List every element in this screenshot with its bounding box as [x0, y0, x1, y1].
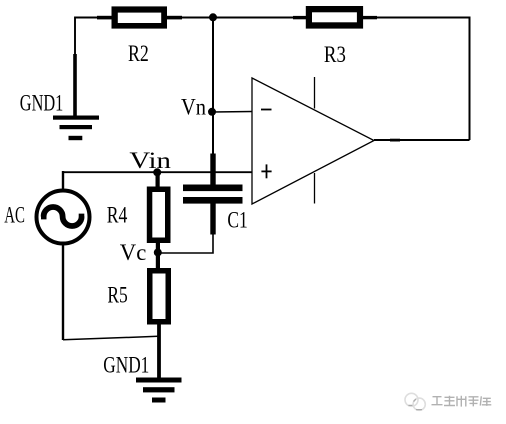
wire: [469, 17, 471, 141]
svg-text:AC: AC: [4, 203, 25, 228]
resistor R5: [147, 268, 171, 325]
svg-text:Vin: Vin: [129, 148, 171, 173]
svg-text:C1: C1: [227, 207, 247, 232]
svg-text:GND1: GND1: [103, 352, 149, 377]
wire (Vin net): [63, 171, 252, 173]
ground GND1 (bottom): [136, 378, 182, 403]
resistor R2: [97, 6, 182, 28]
wire: [75, 18, 98, 57]
wire: [212, 18, 214, 113]
resistor R3: [293, 6, 377, 29]
op-amp U1: [252, 77, 374, 204]
svg-text:Vc: Vc: [120, 240, 147, 265]
AC source: [37, 171, 90, 340]
wire: [63, 336, 158, 340]
svg-text:R4: R4: [107, 202, 128, 227]
wire: [374, 139, 470, 141]
node Vin: [153, 168, 161, 176]
node Vn: [208, 108, 216, 116]
wire: [181, 17, 295, 19]
ground GND1 (top): [53, 54, 99, 140]
svg-text:R2: R2: [128, 41, 149, 66]
wire: [212, 112, 214, 155]
junction node (R2/R3/Vn net): [209, 13, 217, 21]
resistor R4: [147, 173, 171, 270]
wire: [376, 17, 470, 19]
svg-text:GND1: GND1: [20, 91, 64, 116]
node Vc: [154, 248, 162, 256]
wire (output stub): [390, 139, 400, 142]
wire: [213, 111, 252, 114]
watermark text: [432, 396, 492, 407]
watermark logo: [405, 393, 425, 410]
svg-text:R3: R3: [324, 42, 346, 67]
wire: [157, 324, 161, 378]
capacitor C1: [183, 154, 243, 235]
wire: [158, 234, 213, 253]
svg-text:Vn: Vn: [181, 95, 206, 120]
svg-text:R5: R5: [107, 283, 127, 308]
